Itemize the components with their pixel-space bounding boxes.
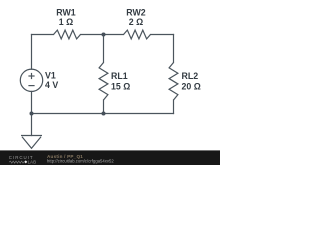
svg-text:2 Ω: 2 Ω — [129, 17, 143, 27]
wire RL1 bottom lead — [103, 100, 105, 114]
svg-text:4 V: 4 V — [45, 80, 58, 90]
wire left vertical (top corner to V1) — [31, 35, 33, 70]
svg-text:RW2: RW2 — [126, 8, 145, 18]
resistor RW2 — [124, 30, 151, 39]
svg-text:20 Ω: 20 Ω — [182, 81, 201, 91]
wire V1 bottom to ground node — [31, 91, 33, 135]
resistor RL2 — [169, 63, 178, 101]
wire RL2 bottom lead — [173, 100, 175, 114]
svg-text:15 Ω: 15 Ω — [111, 81, 130, 91]
voltage source V1 — [20, 69, 42, 91]
node A (top junction) — [102, 33, 106, 37]
wire between RW1 and RW2 — [81, 34, 124, 36]
wire bottom horizontal — [32, 113, 174, 115]
wire middle vertical top (node A to RL1) — [103, 35, 105, 63]
resistor RL1 — [99, 63, 108, 101]
node ground junction — [30, 112, 34, 116]
logo zigzag — [9, 161, 24, 163]
svg-text:http://circuitlab.com/c/crfgga: http://circuitlab.com/c/crfgga54xv52 — [47, 158, 114, 163]
resistor RW1 — [54, 30, 81, 39]
svg-text:RW1: RW1 — [56, 8, 75, 18]
wire top-left horizontal — [32, 34, 54, 36]
wire RW2 to top-right corner — [151, 34, 174, 36]
footer bar — [0, 150, 220, 165]
CircuitLab logo text — [9, 155, 36, 164]
ground — [21, 136, 42, 149]
svg-text:RL1: RL1 — [111, 71, 128, 81]
logo node diamond — [24, 160, 27, 163]
wire right vertical top (corner to RL2) — [173, 35, 175, 63]
svg-text:1 Ω: 1 Ω — [59, 17, 73, 27]
svg-text:RL2: RL2 — [182, 71, 199, 81]
svg-text:V1: V1 — [45, 70, 56, 80]
node bottom middle junction — [102, 112, 106, 116]
svg-text:LAB: LAB — [28, 160, 37, 165]
